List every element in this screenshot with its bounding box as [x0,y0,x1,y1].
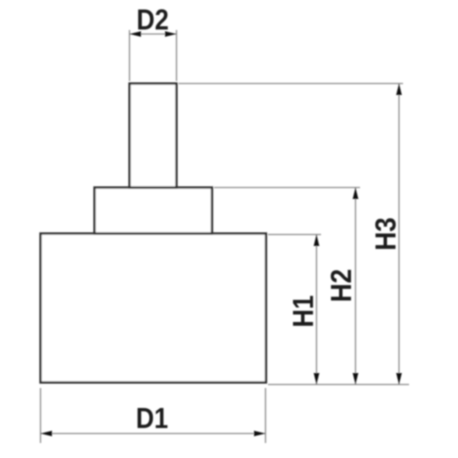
threaded stud rectangle [130,84,177,188]
extension line H2 top [214,187,360,189]
svg-text:H3: H3 [369,217,402,250]
body rectangle (magnet base) [41,234,267,383]
dimension line H2 [355,188,357,385]
extension line D1 right [265,388,267,443]
extension line D1 left [40,388,42,443]
svg-text:D1: D1 [136,401,168,434]
collar rectangle [95,188,213,234]
svg-text:H1: H1 [286,295,319,327]
arrow D1 right [254,431,266,437]
extension line H1 top [268,234,321,236]
arrow H3 up [396,84,402,96]
dimension line D2 [130,33,177,35]
extension line D2 right [176,30,178,81]
dimension line H1 [316,235,318,385]
extension line bottom right [268,384,409,386]
extension line D2 left [129,30,131,81]
arrow H2 down [353,373,359,385]
arrow H2 up [353,188,359,200]
arrow H1 down [314,373,320,385]
arrow D2 right [165,31,177,37]
dimension line H3 [398,84,400,385]
arrow H1 up [314,235,320,247]
extension line H3 top [179,83,404,85]
arrow D2 left [130,31,142,37]
dimension line D1 [41,433,266,435]
svg-text:D2: D2 [136,3,168,36]
arrow D1 left [41,431,53,437]
arrow H3 down [396,373,402,385]
svg-text:H2: H2 [325,269,358,302]
